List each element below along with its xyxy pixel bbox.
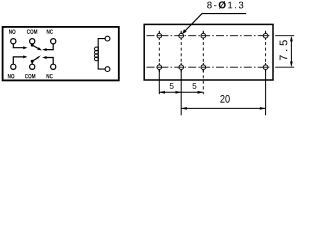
dimension line 7.5	[290, 36, 293, 67]
dimension text 5 second	[192, 83, 196, 89]
label NO top-left	[9, 29, 15, 33]
wire NC arm top pole	[42, 44, 53, 51]
wire COM stub bottom pole	[31, 62, 33, 64]
hole 2 bottom row	[179, 63, 184, 71]
centerline column 4	[265, 31, 267, 66]
centerline row top	[147, 35, 272, 37]
extension line dim col1	[158, 70, 160, 95]
label COM top	[27, 29, 37, 33]
dimension text 7.5	[280, 40, 288, 60]
junction dot COM top	[31, 44, 34, 47]
label NC bottom	[47, 74, 53, 78]
centerline column 2	[180, 31, 182, 73]
centerline column 1	[158, 31, 160, 73]
extension line dim col4	[265, 70, 267, 116]
hole 4 top row	[263, 32, 268, 40]
dimension text 20	[220, 95, 229, 103]
extension line dim col2	[180, 70, 182, 116]
hole 3 bottom row	[201, 63, 206, 71]
hole 4 bottom row	[263, 63, 268, 71]
hole 3 top row	[201, 32, 206, 40]
wire NO arm bottom pole	[13, 55, 27, 64]
terminal COM bottom	[30, 64, 35, 69]
terminal coil top	[105, 36, 110, 41]
hole 1 bottom row	[157, 63, 162, 71]
dimension text 5 first	[170, 83, 174, 89]
terminal NC bottom	[51, 64, 56, 69]
callout text 8-Ø1.3	[207, 1, 243, 9]
wire COM stub top pole	[31, 44, 33, 45]
wire NC arm bottom pole	[42, 56, 53, 64]
wire NO arm top pole	[13, 44, 27, 49]
footprint outline	[144, 24, 273, 80]
dimension line 5 second	[181, 91, 203, 94]
dimension line 20	[181, 107, 265, 110]
terminal NO bottom	[11, 64, 16, 69]
centerline row bottom	[147, 66, 272, 68]
terminal coil bottom	[105, 67, 110, 72]
terminal NO top	[11, 39, 16, 44]
extension line 7.5 bottom	[275, 66, 294, 68]
hole 1 top row	[157, 32, 162, 40]
dimension line 5 first	[159, 91, 181, 94]
hole 2 top row	[179, 32, 184, 40]
relay K1 schematic outline	[3, 27, 119, 81]
wire coil bottom lead	[98, 61, 105, 70]
label COM bottom	[25, 74, 35, 78]
coil L1	[95, 46, 99, 60]
label NO bottom-left	[8, 74, 14, 78]
wiper contact bottom pole	[32, 55, 41, 61]
extension line 7.5 top	[275, 35, 294, 37]
terminal COM top	[30, 39, 35, 44]
centerline column 3	[202, 31, 204, 73]
leader line 8-holes callout	[182, 14, 246, 34]
terminal NC top	[51, 39, 56, 44]
label NC top	[47, 29, 53, 33]
junction dot COM bottom	[31, 60, 34, 63]
wire coil top lead	[98, 39, 105, 47]
wiper contact top pole	[32, 45, 42, 50]
extension line dim col3	[202, 70, 204, 95]
